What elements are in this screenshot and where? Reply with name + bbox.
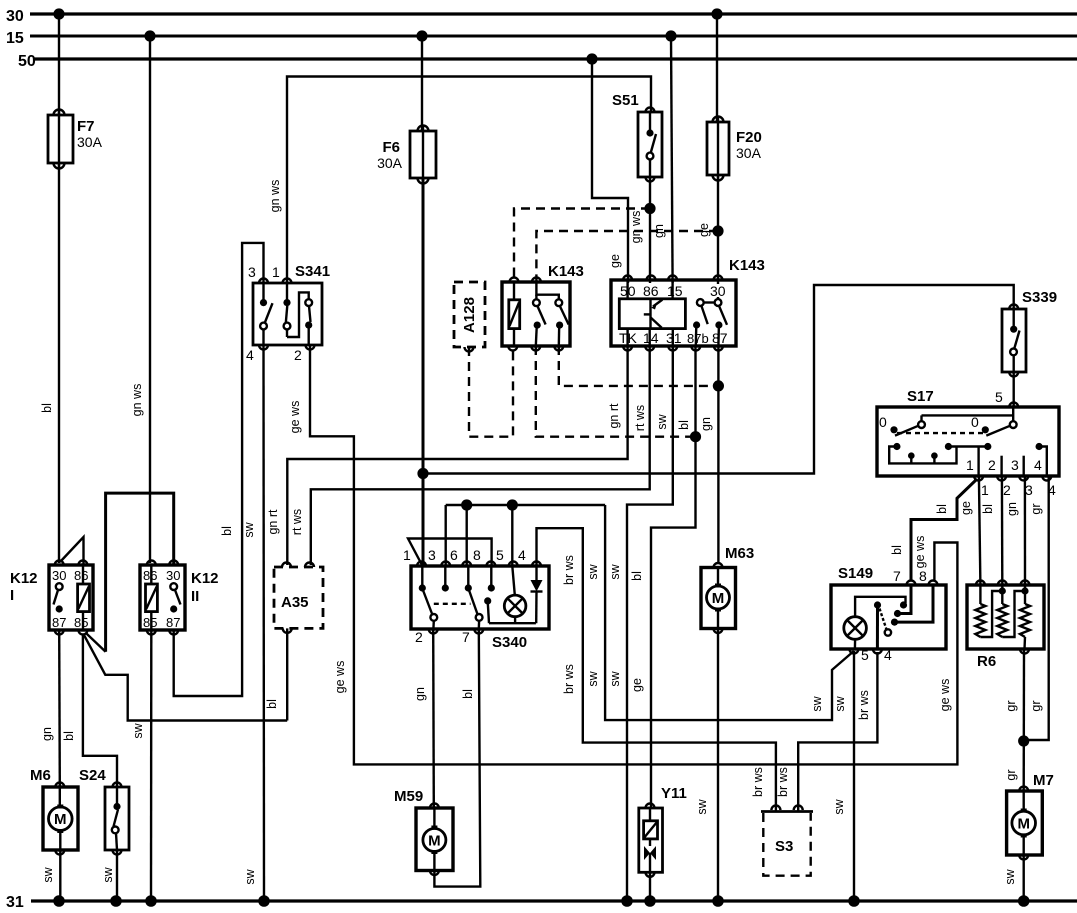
wire M7 to bus31, sw [1003, 855, 1024, 901]
S340 feed rail y505 [446, 504, 605, 506]
svg-text:0: 0 [879, 414, 887, 430]
relay K143 left [502, 263, 584, 346]
svg-text:50: 50 [18, 53, 36, 70]
svg-text:30A: 30A [77, 134, 103, 150]
svg-text:sw: sw [243, 868, 257, 884]
wire K143R TK to A35 pin1, gn rt [266, 346, 628, 565]
S340 bottom pin arcs [429, 629, 484, 634]
svg-text:gn: gn [699, 417, 713, 431]
wire S340 pin7 to M59 bottom, bl [434, 629, 480, 887]
svg-text:2: 2 [294, 347, 302, 363]
svg-text:S3: S3 [775, 838, 793, 855]
switch S51 [612, 92, 662, 182]
svg-text:30: 30 [166, 568, 180, 583]
svg-text:ge ws: ge ws [288, 401, 302, 434]
wire K143R 14 to A35 pin2, rt ws [290, 346, 650, 565]
node bus15/F6 [416, 30, 427, 41]
K12-II coil [146, 565, 158, 630]
control unit A128 [454, 282, 485, 352]
R6 bottom pin arc [1020, 649, 1029, 654]
node bus31/S149-5 [848, 895, 860, 907]
wire rail to pin3 [445, 505, 447, 566]
wire F7 to K12-I pin30, bl [40, 163, 59, 563]
wire R6 to M7, gr [1004, 649, 1024, 791]
svg-text:30: 30 [52, 568, 66, 583]
switch unit S149 [831, 565, 946, 649]
svg-text:ge ws: ge ws [333, 661, 347, 694]
svg-text:sw: sw [832, 798, 846, 814]
wire S17 pin1 down to R6, ge [959, 476, 980, 585]
wire S339 to S17 pin5 [995, 372, 1018, 407]
S149 contact dots [874, 601, 907, 625]
svg-text:S340: S340 [492, 634, 527, 651]
S340 pin labels [403, 547, 526, 645]
node 87 wire / dashed [713, 380, 724, 391]
motor M63 [701, 545, 754, 633]
K12-I switch [54, 583, 63, 612]
S17 bottom bracket [889, 447, 956, 464]
wire S340 pin2 to M59, gn [413, 629, 434, 808]
svg-text:gn: gn [413, 687, 427, 701]
S341 pin 3 [248, 264, 268, 283]
node bus15/x150 [144, 30, 155, 41]
node bus30/F7 [53, 8, 64, 19]
S149 lever [880, 609, 892, 636]
svg-text:31: 31 [6, 894, 24, 911]
svg-text:sw: sw [131, 722, 145, 738]
node bus30/F20 [711, 8, 722, 19]
wire K12-I pin87 to M6, gn [40, 630, 60, 787]
wire bus30 to F7 [58, 14, 60, 115]
svg-text:gr: gr [1029, 700, 1043, 711]
svg-text:87: 87 [166, 615, 180, 630]
switch unit S3 [761, 806, 813, 876]
svg-text:sw: sw [810, 695, 824, 711]
S17 contact row dots [893, 443, 1042, 459]
svg-text:1: 1 [272, 264, 280, 280]
dashed wire A128 to K143L coil pin [469, 346, 513, 437]
svg-text:bl: bl [890, 545, 904, 555]
K143R inner pin stubs [628, 280, 673, 346]
svg-text:F20: F20 [736, 129, 762, 146]
K143L pin arcs bottom [508, 346, 563, 351]
R6 bottom out [1023, 637, 1026, 649]
svg-text:sw: sw [608, 670, 622, 686]
wire K12-II pin85 to bus31, sw [131, 630, 151, 901]
svg-text:F6: F6 [382, 139, 400, 156]
node bus31/x627 [621, 895, 633, 907]
S17 mechanical link dashed [897, 432, 985, 434]
node R6/S17-4 wires [1018, 735, 1029, 746]
svg-text:87: 87 [52, 615, 66, 630]
svg-text:30: 30 [6, 8, 24, 25]
svg-text:ge: ge [608, 254, 622, 268]
K12-II switch [170, 583, 180, 612]
wire F6-node right up to S339 [423, 285, 1014, 474]
svg-text:5: 5 [861, 647, 869, 663]
K12-I coil [78, 565, 90, 630]
svg-text:M: M [1017, 816, 1030, 833]
svg-text:5: 5 [496, 547, 504, 563]
fuse F20 [707, 117, 762, 181]
S17 bottom pin arcs [974, 476, 1051, 481]
svg-text:3: 3 [1025, 482, 1033, 498]
switch S24 [79, 767, 129, 855]
S149 pole riser from pin4 [876, 607, 879, 649]
svg-text:br ws: br ws [562, 555, 576, 585]
svg-text:M59: M59 [394, 788, 423, 805]
S149 lamp [844, 617, 867, 649]
wire K143R 87b jog to Y11, bl ge [630, 346, 696, 808]
svg-text:M: M [712, 590, 725, 607]
svg-text:I: I [10, 587, 14, 604]
R6 top pin arcs [976, 581, 1030, 586]
svg-text:8: 8 [473, 547, 481, 563]
svg-text:ge ws: ge ws [938, 679, 952, 712]
svg-text:2: 2 [415, 629, 423, 645]
svg-text:sw: sw [242, 521, 256, 537]
S149 bottom pin arcs [849, 647, 892, 663]
svg-text:S339: S339 [1022, 289, 1057, 306]
svg-text:2: 2 [1003, 482, 1011, 498]
svg-text:86: 86 [643, 283, 659, 299]
svg-text:bl: bl [220, 526, 234, 536]
svg-text:30A: 30A [377, 155, 403, 171]
svg-text:87b: 87b [687, 331, 709, 346]
node F20 wire / dashed branch [712, 225, 723, 236]
svg-text:gn ws: gn ws [130, 384, 144, 417]
resistor R6 element 1 [975, 585, 985, 637]
S340 switch 2 [465, 566, 483, 629]
bus 30 [6, 8, 1077, 25]
svg-text:bl: bl [40, 403, 54, 413]
svg-text:II: II [191, 588, 199, 605]
wire M63 to bus31, sw [695, 629, 718, 902]
svg-text:15: 15 [667, 283, 683, 299]
S340 contact dots [442, 566, 449, 592]
svg-text:30: 30 [710, 283, 726, 299]
K143L pin arcs top [510, 278, 541, 283]
switch unit S341 [253, 263, 330, 345]
wire S17 pin1 diagonal to S149 pin7, bl [890, 479, 977, 581]
node bus31/K12-II-85 [145, 895, 157, 907]
bus 31 [6, 894, 1077, 911]
K12-II pin labels [143, 568, 180, 630]
svg-text:3: 3 [1011, 457, 1019, 473]
svg-text:3: 3 [428, 547, 436, 563]
svg-text:0: 0 [971, 414, 979, 430]
S340 link dashed [434, 603, 471, 605]
wire bus15 to K143 pin15, gn [652, 36, 673, 283]
svg-text:7: 7 [893, 568, 901, 584]
svg-text:M63: M63 [725, 545, 754, 562]
S340 switch 1 [419, 566, 438, 629]
S17 bracket stubs [911, 456, 934, 464]
K143R pin labels bottom [619, 330, 728, 346]
wire S341 pin3 to K12-II pin87, bl [174, 243, 264, 696]
motor M6 [30, 767, 78, 855]
S341 right contact set [305, 299, 312, 345]
svg-text:4: 4 [246, 347, 254, 363]
svg-text:gn: gn [1005, 502, 1019, 516]
S341 link bracket [287, 292, 309, 337]
S149 top pin arcs [893, 568, 938, 585]
K12-II pin arcs [147, 561, 178, 635]
svg-text:S149: S149 [838, 565, 873, 582]
S149 pin7 internal [899, 585, 911, 614]
S17 internal pin labels [966, 457, 1042, 473]
svg-text:bl: bl [461, 689, 475, 699]
S340 pin1 branch to pin8 [408, 539, 492, 567]
svg-text:gn rt: gn rt [607, 403, 621, 429]
svg-text:K12: K12 [10, 570, 38, 587]
svg-text:sw: sw [41, 866, 55, 882]
node bus50/x592 [586, 53, 597, 64]
svg-text:85: 85 [74, 615, 88, 630]
K143R relay contacts at pin30 [693, 280, 727, 346]
wire S24 to bus31, sw [101, 850, 117, 901]
wire A35 bottom to y720 rail, bl [265, 628, 287, 720]
svg-text:gn rt: gn rt [266, 509, 280, 535]
wire rail down to S149 pin5, sw [586, 505, 854, 720]
wire M6 to bus31, sw [41, 850, 60, 901]
svg-text:Y11: Y11 [661, 785, 687, 802]
wire S149 pin4 to S3 right pin, br ws [776, 652, 877, 811]
svg-text:M7: M7 [1033, 772, 1054, 789]
svg-text:ge: ge [630, 678, 644, 692]
node bus31/S24 [110, 895, 122, 907]
motor M7 [1007, 772, 1054, 859]
S340 aux contact and rail to lamp [484, 597, 536, 623]
S17 right rotary contact [971, 414, 1017, 436]
wire rail to pin5 [511, 505, 513, 566]
S341 pin 2 [294, 345, 315, 363]
relay K12 II [140, 565, 219, 630]
wire S341-1 feed horizontal to S51 [287, 77, 651, 284]
svg-text:F7: F7 [77, 118, 95, 135]
fuse F6 [377, 126, 436, 184]
svg-text:M: M [54, 811, 67, 828]
svg-text:sw: sw [1003, 868, 1017, 884]
wire F20 to K143 pin30, ge [697, 175, 718, 281]
node F6 wire / y473.5 [417, 468, 428, 479]
svg-text:br ws: br ws [776, 767, 790, 797]
svg-text:1: 1 [403, 547, 411, 563]
S17 internal pin risers [979, 447, 1047, 477]
resistor R6 element 2 [997, 585, 1007, 637]
wire S17 pin4 down to M7 node, gr [1024, 476, 1049, 740]
switch S339 [1002, 289, 1057, 377]
wire bus15 down x150, gn ws [130, 36, 150, 563]
dashed wire K143L pin right to 87 node [559, 346, 719, 386]
wire bridge K12-I pin85 to K12-II pin30 [86, 633, 105, 651]
svg-text:gr: gr [1004, 769, 1018, 780]
svg-text:S24: S24 [79, 767, 106, 784]
K143R bottom pin arcs [623, 346, 723, 351]
wire bus15 to F6 [421, 36, 423, 131]
resistor R6 element 3 [1020, 585, 1030, 637]
R6 series bracket 1 [980, 587, 1006, 637]
svg-text:4: 4 [1034, 457, 1042, 473]
svg-text:sw: sw [608, 563, 622, 579]
node 87b wire / dashed [690, 431, 701, 442]
K143L switch contacts [533, 282, 569, 346]
svg-text:3: 3 [248, 264, 256, 280]
node bus31/M63 [712, 895, 724, 907]
svg-text:A128: A128 [461, 297, 478, 333]
svg-text:sw: sw [695, 798, 709, 814]
switch unit S17 [877, 388, 1059, 476]
svg-text:br ws: br ws [857, 690, 871, 720]
fuse F7 [48, 110, 103, 169]
solenoid valve Y11 [639, 785, 687, 877]
svg-text:A35: A35 [281, 594, 309, 611]
svg-text:gr: gr [1029, 503, 1043, 514]
wire F6 to S340 pin1 [422, 178, 425, 565]
svg-text:bl: bl [62, 731, 76, 741]
relay K12 I [10, 565, 93, 630]
S149 lamp top feed [855, 597, 905, 617]
S17 left rotary contact [879, 414, 925, 436]
S341 pin 4 [246, 345, 268, 363]
node bus31/M7 [1018, 895, 1030, 907]
svg-text:sw: sw [586, 670, 600, 686]
wire S17 pin2 down to R6, bl [981, 476, 1002, 585]
S149 pin8 internal [896, 585, 933, 622]
svg-text:S51: S51 [612, 92, 639, 109]
svg-text:rt ws: rt ws [290, 509, 304, 535]
bus 15 [6, 30, 1077, 47]
wire bus30 to F20 [716, 14, 718, 122]
S341 middle contact set [283, 283, 290, 337]
svg-text:8: 8 [919, 568, 927, 584]
svg-text:M6: M6 [30, 767, 51, 784]
K143R pin labels top [620, 283, 726, 299]
wire S340 pin4 to S3 left pin, br ws [537, 528, 776, 811]
svg-text:S341: S341 [295, 263, 330, 280]
S17 contact row link [948, 445, 987, 447]
svg-text:sw: sw [655, 413, 669, 429]
svg-text:sw: sw [586, 563, 600, 579]
svg-text:gn: gn [40, 727, 54, 741]
node bus31/M6 [53, 895, 65, 907]
node S51 wire / dashed branch [644, 203, 655, 214]
K143R top pin arcs [623, 276, 722, 281]
motor M59 [394, 788, 453, 875]
svg-text:ge: ge [959, 501, 973, 515]
svg-text:br ws: br ws [562, 664, 576, 694]
wire S149 pin5 to bus31, sw [832, 651, 854, 901]
svg-text:K143: K143 [548, 263, 584, 280]
K12-I branch diagonal to pin86 [60, 537, 84, 565]
resistor block R6 [967, 585, 1044, 670]
svg-text:7: 7 [462, 629, 470, 645]
K143R inner electronic box [619, 299, 685, 329]
node rail/pin5 [507, 499, 518, 510]
wire K143R 87 to M63, gn [699, 346, 718, 563]
svg-text:1: 1 [966, 457, 974, 473]
wire S51 to K143 pin86 [649, 177, 651, 283]
wire bus50 jog to K143 pin50, ge [592, 59, 628, 283]
S17 external pin labels [981, 482, 1056, 498]
wire Y11 to bus31 [649, 872, 651, 901]
node rail/pin6 [461, 499, 472, 510]
svg-text:S17: S17 [907, 388, 934, 405]
svg-text:bl: bl [630, 571, 644, 581]
svg-text:sw: sw [833, 695, 847, 711]
diode in S340 [531, 566, 543, 623]
wire K12-I pin85 jog rail to A35 [84, 635, 287, 721]
wire rail to pin6 [466, 505, 468, 566]
svg-text:bl: bl [677, 420, 691, 430]
svg-text:86: 86 [74, 568, 88, 583]
wire S341 pin2 long route to S149 pin8, ge ws [288, 345, 957, 764]
svg-text:ge ws: ge ws [913, 536, 927, 569]
svg-text:R6: R6 [977, 653, 996, 670]
node bus15/K143-15 [665, 30, 676, 41]
dashed wire node to K143-left pin1 [514, 209, 650, 284]
node bus31/Y11 [644, 895, 656, 907]
S340 top pin arcs [417, 562, 541, 567]
dashed wire node to K143-left pin2 [536, 231, 718, 283]
wire K143R 31 down jog to bus31, sw [608, 346, 673, 901]
svg-text:sw: sw [101, 866, 115, 882]
control unit A35 [274, 563, 323, 633]
svg-text:15: 15 [6, 30, 24, 47]
switch unit S340 [411, 566, 549, 651]
S341 left contact set [260, 283, 273, 345]
K12-I pin labels [52, 568, 88, 630]
svg-text:bl: bl [981, 504, 995, 514]
S17 pin5 internal [922, 407, 1014, 421]
wire S17 pin3 down to R6, gn [1005, 476, 1025, 585]
svg-text:4: 4 [884, 647, 892, 663]
svg-text:5: 5 [995, 389, 1003, 405]
svg-text:rt ws: rt ws [633, 405, 647, 431]
bus 50 [18, 53, 1077, 70]
svg-text:gn ws: gn ws [268, 180, 282, 213]
R6 series bracket 2 [1002, 587, 1028, 637]
S341 pin 1 [272, 264, 292, 283]
svg-text:gr: gr [1004, 700, 1018, 711]
svg-text:2: 2 [988, 457, 996, 473]
node bus31/S341-4 [258, 895, 270, 907]
svg-text:K143: K143 [729, 257, 765, 274]
lamp in S340 [504, 566, 526, 623]
svg-text:6: 6 [450, 547, 458, 563]
svg-text:gn ws: gn ws [629, 211, 643, 244]
svg-text:M: M [428, 833, 441, 850]
svg-text:30A: 30A [736, 145, 762, 161]
wire K12-I pin85 to S24, bl [62, 634, 117, 787]
svg-text:bl: bl [265, 699, 279, 709]
wire S341 pin4 to bus31, sw [242, 345, 264, 901]
svg-text:4: 4 [518, 547, 526, 563]
K143L coil [509, 282, 520, 346]
svg-text:bl: bl [935, 504, 949, 514]
relay K143 right [611, 257, 765, 346]
S340 pin8 contact dot [488, 566, 495, 592]
svg-text:br ws: br ws [751, 767, 765, 797]
K12-I pin arcs [55, 561, 88, 635]
svg-text:1: 1 [981, 482, 989, 498]
svg-text:K12: K12 [191, 570, 219, 587]
dashed wire K143L pin mid to 87b node [536, 346, 696, 437]
